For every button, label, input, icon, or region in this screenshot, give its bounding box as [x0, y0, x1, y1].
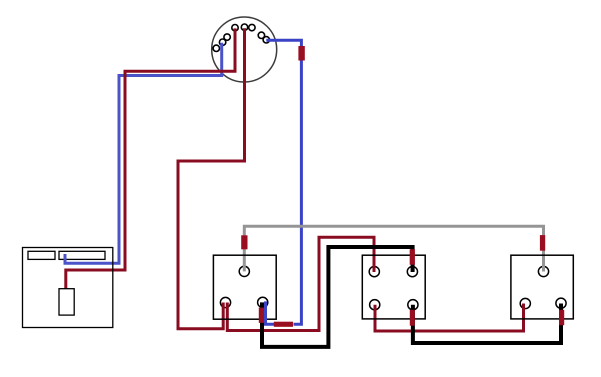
consumer unit fuse block [59, 289, 74, 315]
rose terminal T6 [249, 24, 255, 30]
rose terminal T7 [258, 32, 264, 38]
rose terminal T8 [263, 37, 269, 43]
rose terminal T1 [213, 45, 219, 51]
SW1 bottom-left terminal [220, 297, 230, 307]
consumer unit breaker slot 1 [28, 251, 55, 259]
wire: black strap, SW2 bottom-right terminal to SW3 bottom-right terminal [413, 304, 561, 344]
SW3 top terminal [538, 266, 548, 276]
wire: blue stub, SW1 bottom-right terminal to joint connector [266, 301, 276, 324]
consumer unit box [23, 248, 113, 328]
connector block above SW1 top terminal [241, 235, 247, 249]
SW2 top-left terminal [369, 267, 379, 277]
wire: maroon strap, SW2 bottom-left terminal to SW3 bottom-left terminal [375, 304, 524, 332]
rose terminal T2 [219, 39, 225, 45]
connector block below SW1 bottom-right terminal [259, 308, 264, 323]
rose terminal T3 [224, 34, 230, 40]
SW3 bottom-right terminal [556, 298, 566, 308]
SW2 bottom-right terminal [408, 300, 418, 310]
connector block above SW3 top terminal [540, 235, 545, 251]
SW3 bottom-left terminal [520, 298, 530, 308]
connector block above SW2 top-right terminal [410, 249, 415, 265]
wire: maroon strap, SW1 bottom-left terminal to SW2 top-left terminal [227, 237, 374, 330]
SW1 top terminal [239, 266, 249, 276]
connector block on long blue wire [298, 46, 304, 61]
connector block below SW2 bottom-right terminal [410, 310, 415, 326]
joint connector block between blue wires [274, 322, 293, 327]
connector block below SW3 bottom-right terminal [559, 310, 564, 325]
rose terminal T4 [232, 25, 238, 31]
switch SW2 box [362, 255, 425, 319]
wire: black strap, SW1 bottom-right terminal to SW2 top-right terminal [262, 247, 413, 347]
switch SW3 box [511, 255, 573, 319]
wire: maroon feed, rose terminal T5 down-left-down to SW1 bottom-left terminal [178, 28, 245, 329]
joint connector block between blue wires (redraw over stub) [274, 322, 293, 327]
SW2 top-right terminal [407, 267, 417, 277]
SW2 bottom-left terminal [370, 300, 380, 310]
ceiling rose junction box circle [212, 17, 277, 82]
consumer unit breaker slot 2 [59, 251, 105, 259]
switch SW1 box [213, 255, 276, 319]
rose terminal T5 [241, 24, 247, 30]
wire: blue switched, rose terminal T8 right and down to joint connector [266, 40, 301, 324]
wire: blue neutral, consumer unit to rose terminal T2 [65, 43, 222, 263]
SW1 bottom-right terminal [258, 297, 268, 307]
wire: gray traveller, SW1 top terminal to SW3 top terminal [244, 226, 543, 271]
wire: maroon live, consumer unit to rose terminal T4 [66, 28, 235, 290]
